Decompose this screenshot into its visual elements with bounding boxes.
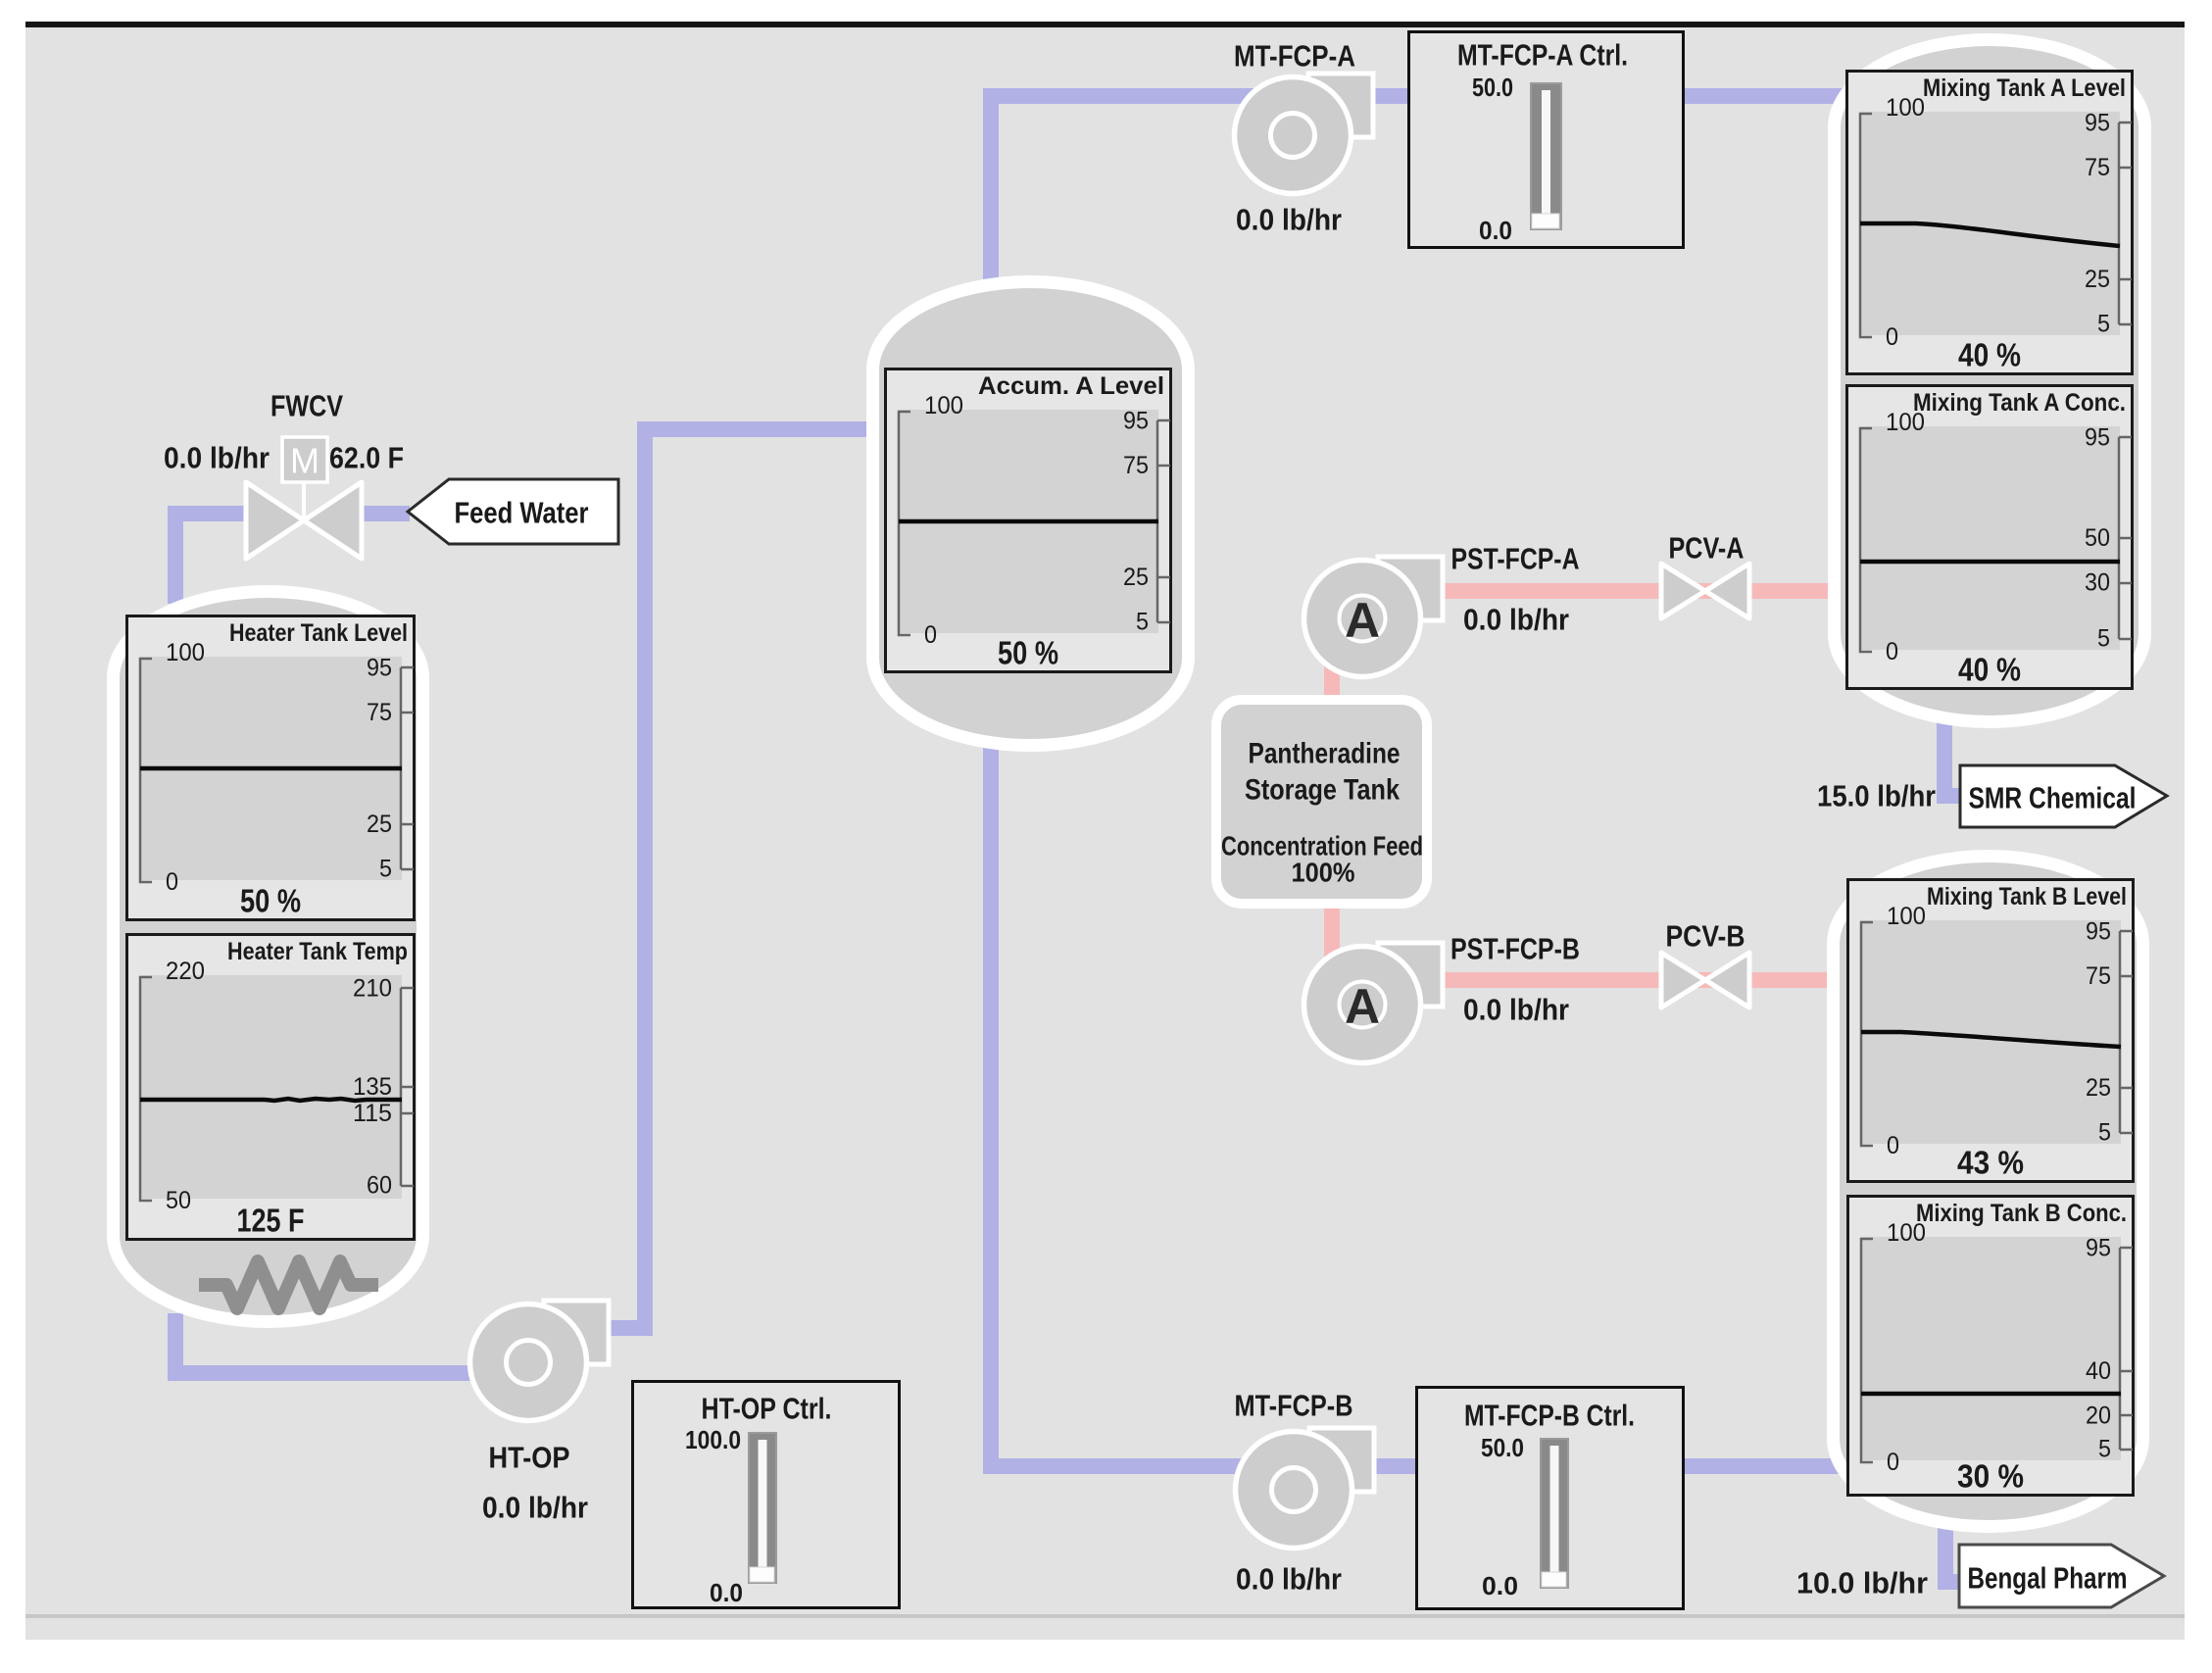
svg-text:135: 135 [353,1073,392,1101]
svg-text:0: 0 [924,621,937,649]
svg-text:125 F: 125 F [237,1203,305,1239]
svg-text:5: 5 [2098,1436,2111,1463]
wire: pipe from Accum. A tank top up [983,88,999,314]
svg-text:100%: 100% [1292,858,1355,888]
chart: Accum. A Level [886,369,1171,672]
panel: HT-OP Ctrl. [633,1382,900,1608]
pump MT-FCP-B [1236,1428,1375,1549]
valve FWCV [246,482,362,559]
svg-text:0.0 lb/hr: 0.0 lb/hr [482,1491,588,1525]
svg-text:220: 220 [166,958,205,985]
wire: pipe from Accum. A tank bottom down [983,715,999,1474]
chart: Mixing Tank A Level [1847,72,2133,374]
wire: pink pipe PST-FCP-B to PCV-B to Mixing Tank B [1421,972,1862,988]
svg-text:Bengal Pharm: Bengal Pharm [1968,1561,2128,1596]
svg-text:Mixing Tank B Level: Mixing Tank B Level [1927,883,2127,910]
svg-text:95: 95 [2085,109,2110,136]
heater element inside Heater Tank [199,1261,378,1308]
svg-text:PCV-B: PCV-B [1666,919,1745,954]
svg-text:100: 100 [1887,903,1926,930]
svg-text:0.0 lb/hr: 0.0 lb/hr [1236,1562,1342,1597]
svg-text:5: 5 [1136,609,1149,636]
svg-text:40: 40 [2086,1357,2111,1385]
wire: pipe from heater tank to HT-OP pump [168,1365,534,1381]
svg-text:20: 20 [2086,1402,2111,1429]
pump HT-OP [470,1301,610,1421]
panel: MT-FCP-A Ctrl. [1409,32,1684,248]
svg-text:60: 60 [367,1172,392,1200]
svg-text:40 %: 40 % [1958,337,2021,373]
tank: Mixing Tank A vessel [1835,40,2145,722]
chart: Heater Tank Temp [127,935,415,1240]
svg-text:MT-FCP-A: MT-FCP-A [1234,39,1355,74]
svg-text:95: 95 [367,654,392,681]
svg-text:75: 75 [367,699,392,726]
svg-text:50: 50 [2085,524,2110,552]
chart: Mixing Tank B Level [1848,880,2134,1182]
svg-text:0.0: 0.0 [710,1578,743,1607]
wire: top pipe to MT-FCP-A pump and Mixing Tank A [983,88,1843,104]
svg-text:75: 75 [2086,962,2111,990]
bottom separator line [25,1614,2185,1618]
svg-text:0: 0 [1886,323,1898,351]
wire: pink pipe PST-FCP-A to PCV-A to Mixing Tank A [1421,583,1862,599]
svg-text:15.0 lb/hr: 15.0 lb/hr [1817,779,1936,813]
svg-text:5: 5 [2097,625,2110,653]
svg-text:50.0: 50.0 [1481,1433,1524,1462]
svg-text:HT-OP Ctrl.: HT-OP Ctrl. [702,1392,832,1426]
svg-text:5: 5 [379,856,392,883]
svg-text:0.0 lb/hr: 0.0 lb/hr [1463,993,1569,1027]
node: Feed Water source arrow [408,479,618,544]
wire: pipe into Accum. A tank left side [637,421,892,437]
wire: bottom pipe to MT-FCP-B pump and Mixing Tank B [983,1458,1843,1474]
svg-text:Storage Tank: Storage Tank [1245,774,1400,807]
svg-text:115: 115 [353,1100,392,1127]
wire: pipe from HT-OP pump outlet to riser [593,1320,653,1336]
node: SMR Chemical sink arrow [1960,765,2167,827]
svg-text:Accum. A Level: Accum. A Level [978,372,1164,400]
svg-text:SMR Chemical: SMR Chemical [1969,781,2137,815]
valve PCV-A [1661,564,1749,618]
svg-text:50 %: 50 % [998,635,1058,671]
svg-text:75: 75 [2085,154,2110,181]
svg-text:25: 25 [2086,1074,2111,1102]
svg-text:62.0 F: 62.0 F [329,441,404,475]
svg-text:43 %: 43 % [1957,1145,2024,1181]
svg-text:MT-FCP-B: MT-FCP-B [1235,1389,1353,1423]
svg-text:Mixing Tank A Level: Mixing Tank A Level [1923,74,2126,102]
tank: Mixing Tank B vessel [1834,857,2143,1527]
svg-text:5: 5 [2097,311,2110,338]
svg-text:75: 75 [1123,452,1149,479]
bottom status strip [25,1618,2185,1640]
svg-text:0: 0 [166,868,178,896]
wire: pipe from Mixing Tank A bottom down [1937,706,1952,804]
chart: Mixing Tank B Conc. [1848,1197,2134,1496]
label: Pantheradine Storage Tank text [1221,738,1423,888]
svg-text:MT-FCP-B Ctrl.: MT-FCP-B Ctrl. [1464,1399,1635,1433]
wire: feed water pipe left of FWCV valve [168,506,247,521]
pump MT-FCP-A [1235,74,1374,194]
svg-text:95: 95 [2086,917,2111,945]
wire: pipe from Feed Water arrow to FWCV valve [363,506,410,521]
svg-text:Heater Tank Temp: Heater Tank Temp [227,938,408,965]
svg-text:95: 95 [1123,407,1149,434]
svg-text:100: 100 [1886,94,1925,122]
svg-text:0.0 lb/hr: 0.0 lb/hr [164,441,270,475]
valve FWCV motor actuator [282,437,327,518]
svg-text:95: 95 [2086,1234,2111,1261]
svg-text:25: 25 [2085,266,2110,293]
svg-text:25: 25 [367,811,392,838]
svg-text:10.0 lb/hr: 10.0 lb/hr [1796,1566,1928,1600]
svg-text:95: 95 [2085,423,2110,451]
chart: Heater Tank Level [127,616,415,920]
svg-text:0.0: 0.0 [1479,216,1512,245]
node: Bengal Pharm sink arrow [1959,1545,2164,1607]
wire: pipe from heater tank bottom down [168,1313,183,1381]
svg-text:100: 100 [1887,1219,1926,1247]
tank: Pantheradine Storage Tank vessel [1216,700,1427,904]
pump PST-FCP-B [1304,943,1444,1063]
svg-text:PCV-A: PCV-A [1669,531,1745,566]
valve PCV-B [1661,953,1749,1008]
svg-text:0.0: 0.0 [1482,1571,1518,1600]
top black border line [25,22,2185,27]
svg-text:100: 100 [166,639,205,666]
svg-text:Mixing Tank A Conc.: Mixing Tank A Conc. [1913,389,2126,417]
svg-text:210: 210 [353,974,392,1002]
svg-text:0.0 lb/hr: 0.0 lb/hr [1463,603,1569,637]
chart: Mixing Tank A Conc. [1847,386,2133,689]
svg-text:30 %: 30 % [1957,1458,2024,1495]
svg-text:30: 30 [2085,569,2110,597]
svg-text:50 %: 50 % [240,883,301,919]
svg-text:50.0: 50.0 [1472,73,1513,102]
panel: MT-FCP-B Ctrl. [1417,1388,1684,1609]
tank: Heater Tank vessel [114,592,423,1322]
svg-text:M: M [290,441,320,481]
wire: pink pipe Pantheradine tank top to PST-FCP-A pump [1324,637,1340,715]
svg-text:0.0 lb/hr: 0.0 lb/hr [1236,203,1342,237]
svg-text:50: 50 [166,1187,191,1214]
wire: pipe elbow into SMR Chemical arrow [1937,788,1970,804]
pump PST-FCP-A [1304,557,1444,677]
svg-text:HT-OP: HT-OP [489,1441,570,1475]
svg-text:Heater Tank Level: Heater Tank Level [229,619,408,647]
wire: pipe elbow into Bengal Pharm arrow [1938,1574,1970,1590]
svg-text:MT-FCP-A Ctrl.: MT-FCP-A Ctrl. [1457,38,1628,73]
wire: feed water pipe down into heater tank [168,506,183,604]
wire: pink pipe Pantheradine tank bottom to PST-FCP-B pump [1324,887,1340,990]
svg-text:100: 100 [1886,409,1925,436]
svg-text:0: 0 [1886,638,1898,665]
wire: pipe from Mixing Tank B bottom down [1938,1509,1953,1590]
svg-text:PST-FCP-B: PST-FCP-B [1450,932,1580,966]
tank: Accumulator A vessel [873,282,1189,746]
svg-text:A: A [1345,979,1380,1034]
svg-text:A: A [1345,593,1380,648]
svg-text:Feed Water: Feed Water [455,496,589,530]
wire: riser pipe from HT-OP up to accumulator feed [637,421,653,1336]
svg-text:40 %: 40 % [1958,652,2021,688]
svg-text:Mixing Tank B Conc.: Mixing Tank B Conc. [1916,1200,2127,1227]
svg-text:PST-FCP-A: PST-FCP-A [1451,542,1580,576]
svg-text:100: 100 [924,392,963,419]
svg-text:100.0: 100.0 [685,1425,741,1454]
svg-text:0: 0 [1887,1449,1899,1476]
svg-text:25: 25 [1123,564,1149,591]
svg-text:Pantheradine: Pantheradine [1249,738,1401,770]
svg-text:FWCV: FWCV [270,389,343,423]
svg-text:0: 0 [1887,1132,1899,1159]
svg-text:5: 5 [2098,1119,2111,1147]
